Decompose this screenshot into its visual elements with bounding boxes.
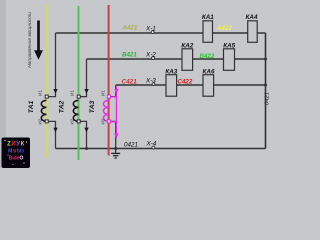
terminal I1 of TA3 [101,90,111,98]
svg-text:С421: С421 [122,79,138,86]
relay KA6 [203,68,215,96]
ZHUK logo [2,138,31,169]
phase bus A yellow [46,4,48,158]
current transformer TA2 [59,100,79,121]
current arrow TA2 upper [84,89,88,94]
svg-text:КА6: КА6 [203,68,215,75]
svg-text:КА4: КА4 [246,14,258,21]
svg-text:И2: И2 [38,118,43,124]
junction TA2 to bus [85,147,88,150]
terminal X-4 [146,141,157,149]
svg-text:КА2: КА2 [181,43,193,50]
wire A421 row 1 horizontal [56,32,266,34]
wire 0421 return vertical right [265,33,267,149]
svg-text:ZИУК: ZИУК [7,141,25,147]
terminal I2 of TA2 [70,118,81,124]
power direction arrow [34,21,43,60]
wire 0421 bottom bus [56,148,266,150]
svg-text:0421: 0421 [265,92,271,105]
relay KA3 [165,68,177,96]
svg-text:Х-4: Х-4 [146,141,157,148]
junction KA5 to return [264,58,267,61]
relay KA4 [246,14,258,42]
svg-text:0421: 0421 [124,141,138,148]
svg-text:И2: И2 [70,118,75,124]
svg-text:Направление мощности: Направление мощности [27,12,33,68]
svg-text:С422: С422 [178,78,193,85]
svg-text:И1: И1 [38,90,43,96]
magenta current path phase C [110,87,118,139]
current transformer TA1 [28,100,47,121]
svg-text:КА5: КА5 [223,43,235,50]
relay KA5 [223,43,235,71]
svg-text:КА3: КА3 [165,68,177,75]
svg-text:В422: В422 [200,53,215,60]
wire TA2 secondary connections [80,59,86,149]
terminal I1 of TA2 [70,90,81,98]
phase bus C red [108,5,110,156]
relay KA1 [202,14,214,42]
wire C421 row 3 horizontal [116,84,266,86]
svg-text:ТА2: ТА2 [59,100,66,113]
current arrow TA2 lower [84,128,88,133]
svg-text:В421: В421 [122,52,137,59]
terminal I2 of TA1 [38,118,49,124]
svg-text:ВideО: ВideО [9,156,24,162]
svg-text:КА1: КА1 [202,14,214,21]
current transformer TA3 magenta highlighted [89,100,109,121]
terminal X-1 [145,26,156,34]
junction KA6 to return [264,84,267,87]
junction TA3 ground to bus [114,147,117,150]
svg-text:Х-3: Х-3 [145,78,156,85]
current arrow TA1 lower [53,128,57,133]
ground [111,149,120,159]
svg-text:Х-2: Х-2 [145,52,156,59]
wire B421 row 2 horizontal [87,58,266,60]
svg-text:А421: А421 [122,25,138,32]
terminal X-3 [145,78,156,86]
terminal X-2 [145,52,156,60]
svg-text:А422: А422 [216,25,232,32]
current arrow TA1 upper [53,89,57,94]
svg-text:ТА3: ТА3 [89,100,96,113]
svg-text:И1: И1 [101,90,106,96]
svg-text:Мзгblз: Мзгblз [8,149,24,155]
phase bus B green [78,6,80,160]
wire TA3 secondary connections [110,85,115,149]
svg-text:Х-1: Х-1 [145,26,156,33]
wire TA1 secondary connections [48,33,56,149]
relay KA2 [181,43,193,71]
svg-text:И1: И1 [70,90,75,96]
terminal I2 of TA3 [101,118,111,124]
svg-text:ТА1: ТА1 [28,100,35,113]
terminal I1 of TA1 [38,90,49,98]
svg-text:И2: И2 [101,118,106,124]
